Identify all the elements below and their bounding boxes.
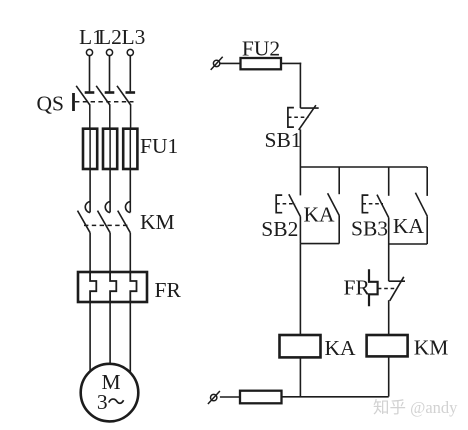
- join of SB3 and KA2 branch: [389, 243, 428, 245]
- wire FR to motor 1: [89, 302, 91, 372]
- wire KA1 to join: [338, 216, 340, 244]
- wire SB3 to join: [388, 218, 390, 244]
- relay contact KA2 blade: [415, 193, 427, 217]
- svg-text:FU2: FU2: [242, 37, 280, 61]
- relay contact KA1 blade: [328, 193, 340, 215]
- wire FU1 to KM pole 2: [109, 169, 111, 212]
- wire FR to motor 2: [109, 302, 111, 364]
- switch QS pole 3 contact bar: [126, 91, 136, 94]
- svg-text:L2: L2: [98, 25, 122, 49]
- contactor KM pole 2 blade: [98, 211, 111, 233]
- FR contact dashed link: [378, 288, 397, 290]
- bottom fuse: [240, 391, 282, 404]
- wire rail to SB3: [388, 167, 390, 196]
- wire rail to KA contact 1: [338, 167, 340, 194]
- contactor KM pole 3 blade: [118, 211, 131, 233]
- terminal L1: [86, 49, 92, 55]
- switch QS linkage dashed line: [75, 101, 134, 103]
- svg-text:KM: KM: [140, 210, 175, 234]
- wire bottom terminal to fuse: [220, 396, 240, 398]
- pushbutton SB1 operator bracket: [288, 108, 294, 128]
- wire QS to FU1 pole 3: [130, 105, 132, 129]
- wire KM to FR pole 2: [109, 233, 111, 272]
- motor M circle: [81, 364, 139, 422]
- FR contact blade: [390, 277, 404, 301]
- fuse FU1 pole 1: [83, 129, 97, 169]
- switch QS pole 1 contact bar: [85, 91, 95, 94]
- svg-text:FR: FR: [344, 276, 371, 300]
- join of SB2 and KA1 branch: [300, 243, 339, 245]
- svg-text:KA: KA: [325, 336, 357, 360]
- pushbutton SB2 blade: [289, 194, 301, 216]
- wire KM to FR pole 1: [89, 233, 91, 272]
- wire through fuse 3: [129, 129, 131, 169]
- wire FR to motor 3: [129, 302, 131, 373]
- svg-text:KM: KM: [414, 336, 449, 360]
- wire FU2 to corner: [281, 62, 301, 64]
- svg-text:L3: L3: [122, 25, 146, 49]
- FR heater element 1: [90, 272, 96, 302]
- pushbutton SB1 blade: [299, 105, 316, 130]
- wire L2 to QS: [109, 56, 111, 92]
- contactor KM linkage dashed line: [84, 224, 128, 226]
- pushbutton SB2 operator bracket: [276, 195, 282, 213]
- wire L1 to QS: [89, 56, 91, 92]
- svg-text:SB1: SB1: [265, 128, 302, 152]
- contactor KM pole 1 blade: [78, 211, 91, 233]
- pushbutton SB1 seat: [300, 107, 318, 109]
- wire KA2 to join: [426, 216, 428, 244]
- terminal L2: [106, 49, 112, 55]
- bottom rail: [282, 396, 389, 398]
- wire KM coil to bottom rail: [388, 356, 390, 396]
- svg-text:KA: KA: [304, 202, 336, 226]
- wire L3 to QS: [129, 56, 131, 92]
- svg-text:FU1: FU1: [140, 134, 178, 158]
- terminal L3: [127, 49, 133, 55]
- svg-text:KA: KA: [393, 214, 425, 238]
- svg-text:FR: FR: [155, 278, 182, 302]
- svg-text:SB2: SB2: [261, 217, 298, 241]
- fuse FU1 pole 2: [103, 129, 117, 169]
- thermal relay FR box: [78, 272, 147, 302]
- pushbutton SB2 operator dashed link: [276, 203, 295, 205]
- pushbutton SB3 operator dashed link: [362, 203, 383, 205]
- control circuit bottom terminal: [211, 394, 217, 400]
- wire rail to SB2: [299, 167, 301, 195]
- switch QS pole 2 contact bar: [105, 91, 115, 94]
- switch QS pole 1 blade: [76, 86, 90, 106]
- wire QS to FU1 pole 1: [89, 105, 91, 129]
- pushbutton SB3 blade: [377, 195, 389, 218]
- top terminal slash: [211, 57, 223, 70]
- wire through fuse 1: [89, 129, 91, 169]
- FR heater element 2: [110, 272, 116, 302]
- switch QS handle bar: [72, 93, 75, 111]
- wire KA coil to bottom rail: [299, 357, 301, 396]
- relay coil KA: [280, 335, 321, 357]
- wire through fuse 2: [109, 129, 111, 169]
- FR heater element 3: [130, 272, 136, 302]
- switch QS pole 3 blade: [117, 86, 131, 106]
- wire KM to FR pole 3: [129, 233, 131, 272]
- wire SB1 to rail: [299, 129, 301, 167]
- wire join to KA coil: [299, 244, 301, 335]
- contactor KM pole 1 fixed contact arc: [85, 202, 90, 213]
- wire SB2 to join: [299, 217, 301, 244]
- pushbutton SB3 operator bracket: [362, 195, 368, 213]
- wire FU1 to KM pole 3: [129, 169, 131, 212]
- motor tilde symbol: [109, 399, 124, 403]
- contactor coil KM: [367, 335, 408, 356]
- switch QS pole 2 blade: [96, 86, 110, 106]
- svg-text:SB3: SB3: [351, 217, 388, 241]
- wire rail to KA contact 2: [426, 167, 428, 196]
- svg-text:QS: QS: [37, 91, 64, 115]
- wire corner down to SB1: [299, 63, 301, 109]
- FR contact operator hook: [369, 269, 378, 306]
- svg-text:知乎 @andy: 知乎 @andy: [373, 398, 458, 417]
- control circuit top terminal: [213, 60, 219, 66]
- fuse FU1 pole 3: [123, 129, 137, 169]
- wire terminal to FU2: [220, 62, 241, 64]
- FR contact seat: [389, 280, 405, 282]
- svg-text:3: 3: [97, 390, 108, 414]
- contactor KM pole 3 fixed contact arc: [125, 202, 130, 213]
- fuse FU2: [241, 58, 282, 69]
- pushbutton SB1 operator dashed link: [288, 116, 309, 118]
- wire FR contact to KM coil: [388, 300, 390, 335]
- contactor KM pole 2 fixed contact arc: [105, 202, 110, 213]
- wire FU1 to KM pole 1: [89, 169, 91, 212]
- bottom terminal slash: [208, 391, 220, 404]
- horizontal rail under SB1: [300, 166, 427, 168]
- wire join to FR contact: [388, 244, 390, 281]
- wire QS to FU1 pole 2: [109, 105, 111, 129]
